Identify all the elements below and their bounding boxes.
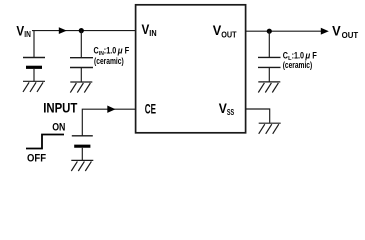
waveform ON/OFF step <box>26 135 64 149</box>
wire drop to battery <box>33 31 35 58</box>
ground (battery B1) <box>23 81 45 92</box>
arrow on CE wire <box>107 106 115 113</box>
pin label VIN <box>142 22 157 38</box>
label VIN (left input) <box>16 23 31 39</box>
capacitor CL plates <box>258 57 281 67</box>
wire VOUT from IC <box>246 30 322 32</box>
battery B1 input source: thin plate <box>23 57 45 59</box>
svg-text:IN: IN <box>24 29 31 39</box>
ground (CIN) <box>70 82 92 93</box>
wire junction down to CIN <box>80 31 82 58</box>
svg-text:μ: μ <box>117 45 123 55</box>
IC U1 body <box>136 5 246 133</box>
capacitor CIN plates <box>70 58 93 68</box>
svg-text:(ceramic): (ceramic) <box>283 60 313 70</box>
svg-text:ON: ON <box>52 121 65 133</box>
wire junction down to CL <box>268 31 270 57</box>
ground (VSS) <box>259 123 281 134</box>
label VOUT (right) <box>332 23 359 40</box>
wire battery B2 to ground <box>81 148 83 161</box>
pin label VSS <box>219 101 235 117</box>
battery B2 thick plate <box>74 145 90 148</box>
svg-text:IN: IN <box>149 28 156 38</box>
svg-text:OFF: OFF <box>27 152 46 164</box>
ground (battery B2) <box>71 160 93 171</box>
svg-text:V: V <box>332 23 341 38</box>
svg-text::1.0: :1.0 <box>104 45 116 55</box>
wire VSS to ground <box>246 109 270 123</box>
node junction VIN/CIN <box>79 28 84 33</box>
wire battery to ground <box>33 69 35 81</box>
svg-text::1.0: :1.0 <box>292 51 304 61</box>
svg-text:SS: SS <box>227 107 235 117</box>
svg-text:(ceramic): (ceramic) <box>94 56 124 66</box>
svg-text:μ: μ <box>305 51 311 61</box>
node junction VOUT/CL <box>267 29 272 34</box>
ground (CL) <box>258 82 280 93</box>
svg-text:F: F <box>125 45 130 55</box>
pin label VOUT <box>213 23 238 40</box>
wire INPUT to CE pin <box>82 109 135 136</box>
battery B1 thick plate <box>26 66 42 69</box>
svg-text:F: F <box>312 51 317 61</box>
svg-text:INPUT: INPUT <box>43 100 78 115</box>
arrow to VOUT label <box>321 28 329 35</box>
wire VIN horizontal to IC <box>32 30 136 32</box>
battery B2 CE input source: thin plate <box>72 135 93 137</box>
label CIN value <box>94 45 130 66</box>
label CL value <box>283 51 317 71</box>
wire CIN to ground <box>80 68 82 83</box>
wire CL to ground <box>268 67 270 82</box>
svg-text:OUT: OUT <box>342 30 359 40</box>
svg-text:OUT: OUT <box>221 29 237 39</box>
arrow on VIN wire <box>59 27 67 34</box>
svg-text:CE: CE <box>145 101 156 116</box>
